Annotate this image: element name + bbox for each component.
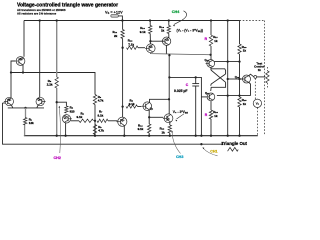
wire R12 to Q2 base (138, 47, 145, 49)
wire Q2 top to node (149, 41, 151, 44)
supply terminal blob (111, 15, 119, 18)
wire rail down to R11 (122, 21, 124, 30)
wire node to Q3 base (150, 40, 163, 42)
wire R15 to ground (239, 107, 241, 136)
transistor Q9 follower (164, 114, 173, 123)
node gray wire branch (56, 101, 58, 103)
wire Q1 collector down (22, 65, 24, 73)
svg-text:9.1k: 9.1k (98, 114, 104, 118)
V1 feed: node on rail (121, 19, 123, 21)
svg-text:1k: 1k (258, 68, 262, 72)
horizontal y95.6 (217, 95, 251, 97)
transistor Q8 (143, 102, 152, 111)
wire long vertical cap node (168, 55, 170, 114)
Q12 collector down (249, 82, 251, 96)
resistor R1 12k (24, 118, 27, 126)
V2-3VBE arrow (177, 114, 185, 119)
wire Q6 base to R2 (71, 120, 79, 122)
resistor R17 1k (209, 35, 212, 46)
svg-text:4.7k: 4.7k (98, 129, 104, 133)
svg-text:CH3: CH3 (176, 155, 183, 159)
node Q6 ground (64, 135, 66, 137)
node output on ground rail (200, 135, 202, 137)
svg-text:CH1: CH1 (210, 149, 217, 153)
node cap ground (195, 135, 197, 137)
node Q8 collector join (168, 98, 170, 100)
wire Q9 emitter to R13b (169, 122, 171, 125)
horizontal Q10ff base y79 (228, 78, 244, 80)
wire rail x227.7 long vertical (227, 19, 229, 21)
svg-text:1k: 1k (243, 49, 247, 53)
node rail x40 (39, 19, 41, 21)
svg-text:Q₁: Q₁ (20, 57, 23, 61)
FF cross coupling (211, 67, 226, 74)
node Q2/Q3/R13 (149, 40, 151, 42)
transistor Q4 (diff pair left) (5, 97, 13, 105)
svg-text:9.1k: 9.1k (138, 127, 144, 131)
wire Q11 down to R18 (210, 101, 212, 110)
wire Q4 base from feedback line (3, 102, 6, 104)
svg-text:2k: 2k (114, 34, 118, 38)
wire R17 to Q10 emitter (210, 46, 212, 60)
transistor Q3 (162, 37, 170, 45)
wire R14 to Q3 collector (168, 34, 170, 38)
emitter bus diff pair (8, 107, 44, 109)
wire rail x239.5 down to R16 (239, 21, 241, 45)
svg-text:7.1k: 7.1k (128, 42, 134, 46)
wire Q3 emitter to Q2 collector node (165, 45, 167, 54)
wire supply to rail (118, 16, 122, 21)
wire horizontal bus y72.5 (11, 73, 95, 95)
resistor R12b 9.1k below Q8 (148, 117, 150, 124)
node output on feedback line (200, 143, 202, 145)
dashed wire V2 top (254, 78, 256, 99)
wire R16 down (239, 54, 241, 97)
node emitter bus (24, 107, 26, 109)
resistor R12 7.1k (horizontal) (127, 46, 139, 49)
svg-text:9.1k: 9.1k (77, 115, 83, 119)
wire Q8 emitter down (148, 110, 150, 118)
svg-text:CH2: CH2 (54, 156, 61, 160)
wire Q8 collector up to cap node (150, 99, 170, 103)
wire cap-node horizontal (169, 77, 201, 135)
node rail x56.7 (56, 19, 58, 21)
Q2 collector wire sloping to flipflop (150, 53, 210, 55)
svg-text:1k: 1k (214, 39, 218, 43)
capacitor C 0.025uF (195, 77, 197, 83)
wire Q7 emitter to ground (123, 126, 125, 136)
svg-text:Q₁₁: Q₁₁ (205, 91, 209, 95)
triangle out feedback line (3, 103, 222, 144)
wire x11 down to Q4 collector (10, 73, 12, 98)
node Q1 collector/base junction (22, 71, 24, 73)
resistor R3 820 (65, 106, 68, 113)
wire test point to pot wiper (257, 76, 265, 78)
wire Q6 emitter to ground (65, 123, 67, 136)
svg-text:0.025 µF: 0.025 µF (174, 89, 187, 93)
resistor R13 9.1k from rail (149, 19, 151, 21)
wire bus to Q7 base (108, 120, 117, 122)
+12V top rail (24, 20, 240, 22)
node R12 branch (121, 47, 123, 49)
transistor Q5 (diff pair right) (36, 97, 44, 105)
resistor R8 9.1k (horizontal) (126, 105, 138, 108)
output arrowhead (221, 143, 223, 145)
wire Q11 base to cap/output vertical (201, 96, 206, 98)
svg-text:9.1k: 9.1k (129, 102, 135, 106)
wire R18 to ground (210, 119, 212, 136)
resistor R5 2.2k (55, 77, 58, 88)
CH3 pointer line (172, 133, 180, 154)
transistor Q6 (62, 115, 70, 123)
transistor Q11 (FF bottom) (207, 93, 215, 101)
open circle test point (254, 76, 257, 79)
wire Q7 collector up (122, 116, 124, 118)
resistor R11 2k (121, 30, 124, 39)
resistor R7 9.1k (horizontal) (97, 119, 108, 122)
CH2 pointer line (59, 108, 60, 154)
dashed wire V2 bottom (257, 108, 259, 136)
node cap top on long vertical (168, 54, 170, 56)
resistor R18 1k (209, 110, 212, 119)
node R6 ground (94, 135, 96, 137)
svg-text:All resistors are 1% tolerance: All resistors are 1% tolerance (17, 12, 57, 16)
transistor Q12 (right) (243, 75, 251, 83)
wire R4 down (94, 105, 96, 136)
resistor R4 4.7k (93, 95, 96, 105)
resistor R15 1k (238, 97, 241, 107)
svg-text:CH4: CH4 (172, 10, 180, 14)
wire R11 down (122, 39, 124, 118)
node base bus (94, 120, 96, 122)
wire to Q9 base (149, 116, 163, 118)
svg-text:1k: 1k (161, 29, 165, 33)
ground bottom rail (24, 135, 258, 137)
node Q8 emitter (148, 116, 150, 118)
wire branch to R3 (57, 102, 67, 106)
svg-text:9.1k: 9.1k (140, 30, 146, 34)
transistor Q1 (16, 57, 25, 66)
horizontal y61.6 (214, 61, 240, 63)
svg-text:820: 820 (70, 109, 75, 113)
transistor Q10 (FF top) (207, 60, 215, 68)
wire rail x211 down to R17 (210, 19, 212, 21)
svg-text:1k: 1k (243, 102, 247, 106)
node gray ground (56, 135, 58, 137)
dashed rail extension to test box (240, 20, 265, 22)
potentiometer Test Control 1k (266, 71, 269, 83)
CH1 pointer line (204, 149, 218, 156)
wire bus to R1 (25, 108, 27, 118)
resistor R13b 1k (168, 125, 171, 133)
V2 source circle (253, 99, 261, 107)
node sloped wire (209, 54, 211, 56)
resistor R6 4.7k (93, 125, 96, 135)
svg-text:2.2k: 2.2k (47, 83, 53, 87)
wire Q1 base loop (11, 61, 15, 73)
svg-text:Triangle Out: Triangle Out (221, 141, 247, 146)
gray probed wire x56.7 (CH2 net) (56, 21, 58, 78)
svg-text:Q₇: Q₇ (121, 118, 124, 122)
Q1 emitter arrow (22, 58, 23, 60)
resistor R2 9.1k (horizontal) (79, 119, 94, 122)
wire R1 to ground rail corner (24, 125, 26, 136)
Q12 emitter wire to test point (249, 74, 254, 77)
Q5 emitter stub (37, 105, 38, 108)
node R8 branch (121, 105, 123, 107)
resistor R16 1k (238, 44, 241, 54)
wire R8 to Q8 base (138, 106, 142, 108)
transistor Q2 (146, 44, 155, 53)
svg-text:1k: 1k (214, 114, 218, 118)
wire rail corner to Q1 emitter (23, 21, 25, 57)
triangle wave glyph (228, 147, 239, 151)
node x11 (10, 71, 12, 73)
resistor R14 1k from rail (168, 19, 170, 21)
transistor Q7 (118, 117, 127, 126)
CH4 pointer curve (174, 11, 187, 25)
node cap branch (195, 76, 197, 78)
wire rail to Q5 collector x40 (39, 21, 41, 98)
dashed test box right side (263, 21, 265, 136)
Q4 emitter stub (12, 105, 13, 108)
svg-text:4.7k: 4.7k (98, 99, 104, 103)
svg-text:12k: 12k (29, 121, 34, 125)
svg-text:1k: 1k (162, 130, 166, 134)
